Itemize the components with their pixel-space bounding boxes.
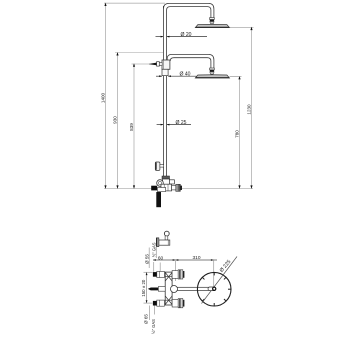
right small square [169,180,174,184]
holder body (top view) [159,240,170,245]
extension line 1230 top [230,26,254,28]
arm to head (plan) [176,287,212,290]
extension line to circle centre [213,260,215,289]
extension line 780 top [230,76,242,78]
bottom right valve rect [172,299,178,307]
svg-text:930: 930 [113,116,118,124]
extension line to top inlet fitting [159,263,161,272]
svg-text:Ø 25: Ø 25 [175,120,186,126]
bottom handle (ridged) [178,299,184,308]
shower head disc 2 (lower) [195,75,229,78]
label 1/2 GAS top with leader [155,247,157,259]
big shower head circle (plan) [197,272,231,306]
svg-text:Ø 65: Ø 65 [144,314,149,324]
label Ø55 with leader [148,248,150,269]
svg-text:1400: 1400 [101,92,106,103]
extension line 839 [132,63,151,65]
dimension 1400 [101,3,107,189]
dimension 60 [153,255,176,261]
dimension 150 +-20 [141,272,152,303]
centre cap [213,287,216,290]
svg-text:½" GAS: ½" GAS [151,319,156,334]
shower head disc 1 (top) [195,24,229,27]
handle stem right [172,186,176,190]
svg-text:Ø 55: Ø 55 [144,254,149,264]
mixer plan: central body [165,272,172,305]
mixer lower body [161,184,172,191]
lower shower arm (second position) [167,54,214,68]
upper shower arm (top position) [163,3,214,17]
wall connection square (black) [151,186,157,191]
bowtie hatch bottom [165,296,172,305]
diverter knob plan (left, black arrow) [158,287,165,292]
ball joint 1 [210,18,215,24]
dimension 839 [129,63,135,188]
outlet fitting below body [157,188,165,192]
slider sleeve below block [162,69,168,75]
ridged handle knob [176,184,182,191]
leader line for Ø225 [202,257,238,304]
hand shower holder knob [155,162,163,170]
extension line to top inlet left [153,262,155,272]
top inlet: black square [153,272,157,277]
svg-text:Ø 20: Ø 20 [180,32,191,38]
label 1/2 GAS bottom with leader [154,306,156,315]
dimension Ø20 [156,32,208,38]
svg-text:839: 839 [129,123,134,131]
svg-text:310: 310 [192,255,200,261]
dimension Ø40 [156,72,197,78]
svg-text:1230: 1230 [247,104,252,115]
diverter ring (left) [157,180,164,187]
baseline at mixer centerline [104,188,253,190]
extension line from pivot [175,261,177,281]
svg-text:60: 60 [158,255,164,261]
dimension Ø25 [157,120,191,126]
top inlet fitting [157,271,165,277]
bottom inlet fitting [157,300,165,306]
top handle (ridged) [178,270,184,279]
extension line 930 [115,52,164,54]
dimension 780 [235,76,241,189]
top right valve rect [172,271,178,279]
svg-text:Ø 40: Ø 40 [179,72,190,78]
mixer upper body [163,179,170,184]
hand shower (black rod) [156,192,161,207]
holder bracket plan: ring [164,231,169,236]
dimension 1230 [247,27,253,189]
holder wall flange [156,238,158,247]
arm to head rounded cap [208,287,216,291]
shower column pipe [163,5,166,176]
bottom inlet: black square [153,301,157,306]
dimension 930 [113,52,119,189]
svg-text:150 ± 20: 150 ± 20 [141,279,146,297]
label Ø65 with leader [149,306,151,321]
dimension 310 [176,255,218,261]
pivot circle [171,286,178,293]
ball joint 2 [210,68,215,74]
bowtie hatch top [165,273,172,282]
holder stem [165,236,168,240]
svg-text:½" GAS: ½" GAS [152,242,157,257]
svg-text:780: 780 [235,130,240,138]
extension line top (1400 top reference) [104,2,165,4]
slider knob (left, black pointed) [149,62,162,66]
mixer connection nut (hatched) [162,176,170,179]
slider block on column [162,60,170,69]
